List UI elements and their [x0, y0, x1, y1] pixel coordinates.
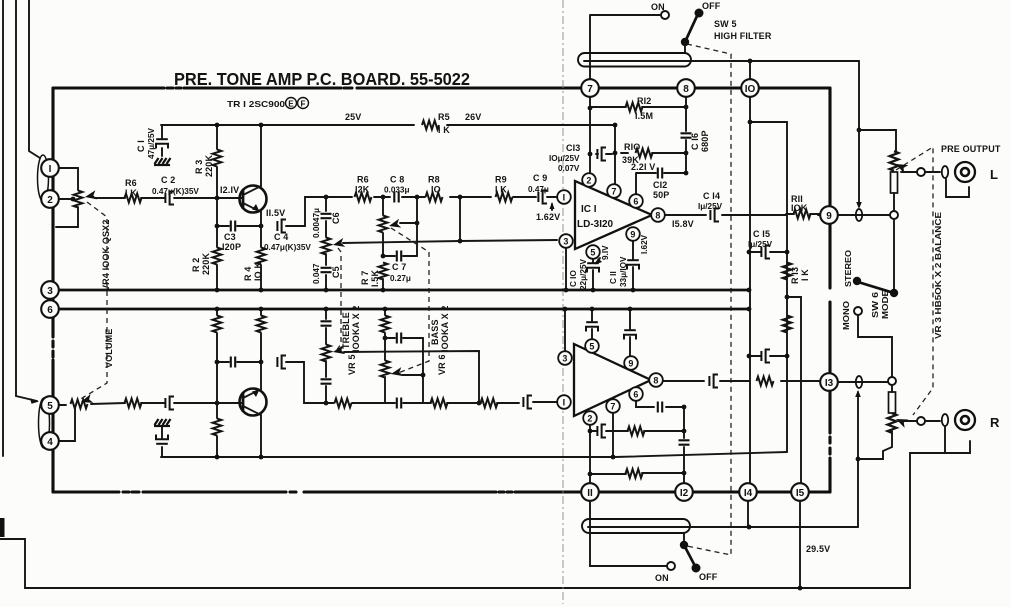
- pin circle 8 output bottom: [663, 380, 820, 382]
- wire shield drop to L output: [858, 61, 860, 205]
- svg-text:3: 3: [47, 286, 53, 297]
- svg-text:VR4 IOOK QSX2: VR4 IOOK QSX2: [101, 220, 111, 291]
- pin stem 7 to 26V rail: [614, 125, 616, 185]
- resistor R2: [216, 198, 218, 290]
- wire: left input line C: [29, 0, 40, 158]
- pin circle 6: [629, 194, 643, 208]
- resistor bottom row b: [431, 399, 448, 408]
- resistor R11 10K: [794, 210, 811, 219]
- svg-text:C5: C5: [331, 266, 341, 278]
- resistor R12 row: [590, 106, 686, 108]
- svg-text:5: 5: [589, 342, 594, 352]
- resistor R13b (R channel): [783, 316, 792, 333]
- resistor R6: [125, 194, 142, 203]
- connector ellipse R line: [856, 376, 862, 388]
- board outline: top edge: [53, 86, 830, 89]
- svg-text:VR 3 HB5OK X 2 BALANCE: VR 3 HB5OK X 2 BALANCE: [934, 211, 943, 339]
- svg-text:0.07V: 0.07V: [558, 164, 580, 173]
- svg-text:I5.8V: I5.8V: [672, 219, 694, 229]
- shielded jumper loop top: [578, 53, 691, 67]
- switch SW5 arm: [685, 16, 697, 42]
- svg-text:7: 7: [587, 84, 593, 95]
- svg-text:R 2: R 2: [191, 258, 201, 272]
- wire node4 branch: [58, 408, 75, 441]
- node 15: [791, 483, 809, 501]
- wire treble lower wiper: [344, 351, 479, 403]
- node 5: [41, 396, 59, 414]
- potentiometer VR4 lower: [71, 400, 88, 409]
- svg-text:C I4: C I4: [703, 191, 720, 201]
- switch SW5b pivot: [680, 541, 688, 549]
- resistor R6 12K: [355, 193, 372, 202]
- capacitor C8: [394, 192, 398, 203]
- svg-text:R6: R6: [125, 178, 137, 188]
- cable loop at nodes 5-4: [39, 398, 50, 448]
- svg-text:I5: I5: [796, 488, 805, 499]
- bus end dots: [747, 288, 752, 293]
- svg-text:VR 6: VR 6: [437, 354, 447, 375]
- svg-text:I20P: I20P: [222, 242, 241, 252]
- capacitor C6 lower column: [325, 309, 327, 344]
- wiper arrow VR6 lower: [390, 367, 403, 378]
- svg-text:SW 6: SW 6: [871, 291, 880, 318]
- wiper arrow VR4 lower: [80, 394, 94, 406]
- svg-text:I4: I4: [744, 488, 753, 499]
- wire R6 to C2: [141, 197, 165, 199]
- svg-text:C3: C3: [224, 232, 236, 242]
- svg-text:STEREO: STEREO: [844, 249, 853, 287]
- jack shield L: [946, 179, 969, 197]
- svg-text:II: II: [587, 488, 593, 499]
- emitter wire: [260, 211, 262, 226]
- svg-text:C 7: C 7: [392, 262, 406, 272]
- pin circle 1: [557, 190, 571, 204]
- node 4: [41, 432, 59, 450]
- svg-text:8: 8: [683, 84, 689, 95]
- svg-text:OFF: OFF: [702, 1, 721, 11]
- wire node10 main stem down to node14: [749, 61, 751, 483]
- svg-text:29.5V: 29.5V: [806, 544, 830, 554]
- switch SW5 ON terminal: [661, 11, 669, 19]
- svg-text:IO K: IO K: [253, 262, 263, 281]
- wire node15 stem to 29.5V: [799, 501, 801, 588]
- svg-text:0.47μ(K)35V: 0.47μ(K)35V: [264, 243, 311, 252]
- wire jumper inner conductor bottom: [588, 526, 858, 528]
- svg-text:220K: 220K: [201, 253, 211, 275]
- svg-text:R 3: R 3: [194, 160, 204, 174]
- svg-text:C I6: C I6: [690, 133, 700, 150]
- wiper arrow VR4 upper: [84, 190, 97, 201]
- 25V rail: [161, 124, 615, 126]
- RCA jack L: [955, 162, 975, 182]
- svg-text:9: 9: [628, 359, 633, 369]
- bus wire node6 row: [56, 308, 749, 311]
- svg-text:I2.IV: I2.IV: [220, 185, 239, 195]
- node 3: [41, 281, 59, 299]
- pin 3 stem: [564, 309, 566, 351]
- capacitor C13: [596, 153, 612, 155]
- svg-text:OFF: OFF: [699, 572, 718, 582]
- resistor bottom row c (R9): [481, 399, 498, 408]
- wire R8 junction down: [459, 197, 461, 241]
- board outline: right edge: [828, 88, 831, 492]
- shielded jumper loop bottom: [582, 519, 690, 533]
- resistor R4 lower: [216, 403, 218, 457]
- potentiometer VR3 L: [890, 151, 899, 171]
- capacitor C14 lower: [709, 375, 718, 388]
- svg-text:I2K: I2K: [355, 185, 370, 195]
- node 7 stem to ON: [590, 15, 660, 81]
- svg-text:C 4: C 4: [274, 232, 288, 242]
- terminal circle SW6 stereo junction: [890, 211, 898, 219]
- svg-text:IOOKA X 2: IOOKA X 2: [351, 305, 361, 352]
- svg-text:7: 7: [610, 402, 615, 412]
- svg-text:8: 8: [653, 376, 658, 386]
- svg-text:0.047: 0.047: [312, 263, 321, 284]
- capacitor C2 lower: [141, 402, 165, 404]
- ground capacitor C1 lower: [154, 419, 171, 426]
- svg-text:9.IV: 9.IV: [601, 245, 610, 260]
- terminal circle R pot top: [888, 377, 896, 385]
- resistor R7 1.5K: [379, 263, 388, 280]
- node 6: [41, 300, 59, 318]
- potentiometer VR6 bass upper: [382, 197, 384, 256]
- wire treble wiper to pin3: [343, 240, 557, 243]
- board outline: left edge: [51, 88, 54, 492]
- 29.5V rail: [161, 452, 787, 457]
- svg-text:I K: I K: [438, 125, 450, 135]
- svg-text:PRE. TONE AMP P.C. BOARD. 55-5: PRE. TONE AMP P.C. BOARD. 55-5022: [174, 69, 470, 89]
- svg-text:5: 5: [47, 401, 53, 412]
- capacitor C9 lower: [523, 396, 532, 409]
- svg-text:C 8: C 8: [390, 175, 404, 185]
- collector wire to 29.5V rail: [260, 415, 262, 457]
- svg-text:2.2I V: 2.2I V: [631, 162, 655, 172]
- resistor R7 lower: [384, 309, 386, 360]
- svg-text:I2: I2: [680, 488, 689, 499]
- transistor TR1 (top): [240, 186, 267, 213]
- svg-text:IOOKA X 2: IOOKA X 2: [440, 305, 450, 352]
- pin 5 stem / capacitor: [591, 309, 593, 339]
- potentiometer VR4 upper: [74, 191, 83, 208]
- svg-text:C6: C6: [331, 212, 341, 224]
- svg-text:TR I 2SC900: TR I 2SC900: [227, 100, 286, 109]
- connector ellipse L line: [856, 209, 862, 221]
- capacitor C4: [277, 220, 286, 233]
- svg-text:PRE OUTPUT: PRE OUTPUT: [941, 144, 1001, 154]
- svg-text:C I: C I: [136, 140, 146, 152]
- pin stem 6 / capacitor C12: [636, 173, 686, 194]
- switch SW5b arm to OFF: [684, 545, 695, 566]
- svg-text:8: 8: [655, 211, 660, 221]
- svg-text:22μ/25V: 22μ/25V: [579, 259, 588, 290]
- resistor R10 lower: [628, 427, 645, 436]
- svg-text:3: 3: [563, 237, 568, 247]
- resistor R4: [260, 226, 262, 290]
- svg-text:0.47μ: 0.47μ: [528, 185, 549, 194]
- VR4 gang dashed link: [79, 202, 107, 400]
- svg-text:Iμ/25V: Iμ/25V: [748, 240, 773, 249]
- capacitor C4 lower: [277, 356, 286, 369]
- svg-text:50P: 50P: [653, 190, 669, 200]
- resistor R3 lower: [260, 309, 262, 362]
- jack shield R: [945, 427, 970, 453]
- svg-text:9: 9: [826, 211, 832, 222]
- capacitor C6 column: [325, 197, 327, 237]
- ground for C1: [154, 158, 171, 165]
- wire node13 to R output: [838, 381, 888, 383]
- svg-text:25V: 25V: [345, 112, 361, 122]
- svg-text:R 7: R 7: [360, 271, 370, 285]
- pin 5 stem / capacitor C10: [592, 258, 594, 290]
- svg-text:6: 6: [633, 390, 638, 400]
- capacitor C2: [165, 192, 174, 205]
- collector wire to 25V rail: [260, 125, 262, 186]
- wire VR3 R foot to shield: [858, 431, 892, 459]
- node IO: [741, 79, 759, 97]
- svg-text:TREBLE: TREBLE: [341, 312, 351, 349]
- svg-text:C 2: C 2: [161, 175, 175, 185]
- resistor R6 lower: [125, 399, 142, 408]
- resistor R2 lower: [216, 309, 218, 403]
- svg-text:R5: R5: [438, 112, 450, 122]
- svg-text:F: F: [300, 100, 305, 109]
- svg-text:I K: I K: [125, 188, 137, 198]
- svg-text:IO: IO: [745, 84, 756, 95]
- pin 7 stem down: [612, 413, 614, 457]
- pin circle 1 bottom: [557, 395, 571, 409]
- R12 row lower: [590, 473, 684, 474]
- svg-text:680P: 680P: [700, 130, 710, 152]
- svg-text:I: I: [49, 164, 52, 175]
- svg-text:9: 9: [630, 230, 635, 240]
- svg-text:I K: I K: [800, 269, 810, 281]
- node 12 stem / capacitor C16 lower: [683, 407, 685, 484]
- svg-text:RIO: RIO: [624, 142, 640, 152]
- svg-text:33μ/IOV: 33μ/IOV: [619, 256, 628, 287]
- potentiometer VR5 treble upper: [322, 238, 331, 255]
- capacitor C7: [383, 255, 417, 257]
- svg-text:R9: R9: [495, 175, 507, 185]
- svg-text:IO: IO: [431, 185, 441, 195]
- svg-text:2: 2: [47, 195, 53, 206]
- resistor R10 39K: [621, 152, 686, 154]
- node 12: [675, 483, 693, 501]
- channel separator dash-dot line: [562, 0, 564, 604]
- wire jumper inner conductor: [584, 60, 859, 62]
- svg-text:47μ/25V: 47μ/25V: [147, 128, 156, 159]
- svg-text:6: 6: [47, 305, 53, 316]
- resistor R11 lower: [757, 377, 774, 386]
- wire bass lower wiper: [402, 374, 423, 376]
- capacitor C13 lower: [597, 425, 606, 438]
- node I: [41, 159, 59, 177]
- wire node14 stem: [747, 501, 749, 527]
- jack contact L: [942, 166, 948, 178]
- treble gang dashed link: [336, 248, 341, 351]
- pin circle 8 output: [664, 214, 821, 216]
- wiper arrow VR3 R: [894, 415, 908, 428]
- pin 2 stem down: [589, 425, 591, 484]
- capacitor C1: [161, 125, 163, 156]
- svg-text:R: R: [990, 415, 1000, 430]
- wire node9 to L output: [838, 214, 890, 216]
- svg-text:I.5K: I.5K: [370, 270, 380, 287]
- svg-text:CI2: CI2: [653, 180, 667, 190]
- wire wiper to R6: [95, 197, 125, 199]
- resistor R3: [216, 125, 218, 198]
- wire: bottom external run: [0, 453, 945, 588]
- svg-text:0.0047μ: 0.0047μ: [312, 208, 321, 238]
- wire SW6 stereo stem: [893, 219, 895, 290]
- capacitor C14: [710, 209, 719, 222]
- svg-text:C I5: C I5: [753, 229, 770, 239]
- svg-text:BASS: BASS: [430, 319, 440, 345]
- board outline: bottom edge: [53, 490, 830, 493]
- emitter wire up: [260, 362, 262, 390]
- svg-text:0.033μ: 0.033μ: [384, 186, 410, 195]
- node 13: [820, 373, 838, 391]
- R10 row lower: [590, 430, 684, 432]
- wire tone main: [326, 196, 536, 198]
- svg-text:3: 3: [562, 354, 567, 364]
- svg-text:LD-3I20: LD-3I20: [577, 219, 614, 230]
- switch SW5 OFF terminal: [695, 9, 704, 18]
- wiper arrow VR5 lower: [332, 345, 345, 356]
- resistor R5: [422, 121, 439, 130]
- node 2: [41, 190, 59, 208]
- wire node7 down / pin2 stem: [589, 96, 591, 174]
- node 14: [739, 483, 757, 501]
- capacitor C15: [749, 251, 787, 253]
- pin circle 3: [565, 248, 567, 290]
- wire MONO to R channel: [858, 315, 892, 377]
- wire: left input line B: [16, 0, 37, 401]
- bus wire node3 row: [56, 289, 749, 292]
- svg-text:VOLUME: VOLUME: [104, 329, 114, 368]
- wire C9 to pin1: [547, 196, 557, 198]
- resistor R13 1K: [783, 263, 792, 280]
- wire: left input line A: [2, 0, 4, 456]
- resistor bottom row a: [335, 399, 352, 408]
- wire shield rise from R output: [857, 392, 859, 527]
- node 9: [820, 206, 838, 224]
- switch SW6 MONO terminal: [854, 307, 862, 315]
- svg-text:HIGH FILTER: HIGH FILTER: [714, 31, 772, 41]
- pin circle 7: [607, 184, 621, 198]
- connector bar lower-left: [0, 518, 5, 537]
- svg-text:I: I: [563, 398, 566, 408]
- node 8 stem / capacitor C16: [685, 96, 687, 173]
- wiper arrow VR6 upper: [388, 219, 401, 231]
- potentiometer VR5 treble lower: [322, 345, 331, 362]
- svg-text:C II: C II: [609, 271, 618, 284]
- svg-text:I3: I3: [825, 378, 834, 389]
- svg-text:SW 5: SW 5: [714, 19, 737, 29]
- svg-text:26V: 26V: [465, 112, 481, 122]
- svg-text:I: I: [563, 193, 566, 203]
- potentiometer VR3 R: [891, 385, 893, 392]
- wire C2 to base: [174, 197, 242, 199]
- svg-text:IOK: IOK: [791, 203, 808, 213]
- wire VR4 to R6 lower: [91, 403, 125, 404]
- pin 9 stem / capacitor C11: [632, 241, 634, 290]
- wire branch at y122: [750, 121, 787, 123]
- wire bass wiper: [400, 222, 417, 224]
- node 7: [581, 79, 599, 97]
- svg-text:R6: R6: [357, 175, 369, 185]
- svg-text:RI2: RI2: [637, 96, 651, 106]
- svg-text:2: 2: [586, 176, 591, 186]
- tone line node: [324, 195, 329, 200]
- wire node5 to VR4 lower: [58, 404, 66, 406]
- SW5 gang dashed link: [687, 44, 731, 555]
- svg-text:MONO: MONO: [842, 300, 851, 330]
- wire to VR3 L top: [859, 130, 896, 151]
- svg-text:IOμ/25V: IOμ/25V: [549, 154, 580, 163]
- svg-text:0.27μ: 0.27μ: [390, 274, 411, 283]
- wire bass junction down: [422, 338, 424, 403]
- svg-text:R 4: R 4: [243, 267, 253, 281]
- RCA jack R: [955, 410, 975, 430]
- wire C8 junction down: [416, 197, 418, 256]
- potentiometer VR6 bass lower: [381, 361, 390, 378]
- wire node1 to VR4: [58, 168, 78, 190]
- resistor R8 10: [426, 193, 443, 202]
- svg-text:L: L: [990, 167, 998, 182]
- svg-text:4: 4: [47, 437, 53, 448]
- svg-text:IC I: IC I: [581, 204, 597, 215]
- svg-text:6: 6: [633, 197, 638, 207]
- wire node2 to wiper: [58, 198, 73, 200]
- capacitor C3: [217, 225, 261, 227]
- pin circle 2: [582, 173, 596, 187]
- svg-text:220K: 220K: [204, 155, 214, 177]
- capacitor C7 lower: [385, 337, 423, 339]
- svg-text:VR 5: VR 5: [347, 354, 357, 375]
- terminal circle L: [917, 168, 925, 176]
- capacitor C3 lower: [217, 361, 261, 363]
- svg-text:ON: ON: [655, 573, 669, 583]
- node 11: [581, 483, 599, 501]
- wire C2 to base lower: [174, 402, 242, 404]
- svg-text:2: 2: [587, 414, 592, 424]
- svg-text:0.47μ(K)35V: 0.47μ(K)35V: [152, 187, 199, 196]
- wiper arrow VR5 upper: [332, 238, 345, 250]
- wire C4 up to tone line: [286, 197, 326, 226]
- svg-text:I.62V: I.62V: [640, 234, 649, 254]
- wiper arrow VR3 L: [894, 160, 908, 173]
- svg-text:MODE: MODE: [881, 289, 890, 319]
- jack contact R: [942, 414, 948, 426]
- pin 6 stem / capacitor C12 lower: [636, 401, 684, 407]
- svg-text:C 9: C 9: [533, 173, 547, 183]
- bass gang dashed link: [391, 228, 429, 373]
- svg-text:I K: I K: [495, 185, 507, 195]
- svg-text:CI3: CI3: [566, 143, 580, 153]
- pin 9 stem / capacitor: [629, 309, 631, 356]
- svg-text:1.62V: 1.62V: [536, 212, 560, 222]
- resistor R12 lower: [626, 469, 643, 478]
- svg-text:ON: ON: [651, 2, 665, 12]
- node 8: [677, 79, 695, 97]
- svg-text:R I3: R I3: [790, 267, 800, 284]
- capacitor C9: [538, 191, 547, 204]
- wire vertical feedback rail x787: [786, 122, 788, 452]
- transistor TR1 (bottom): [240, 389, 267, 416]
- capacitor C5: [325, 254, 327, 290]
- svg-text:E: E: [288, 100, 294, 109]
